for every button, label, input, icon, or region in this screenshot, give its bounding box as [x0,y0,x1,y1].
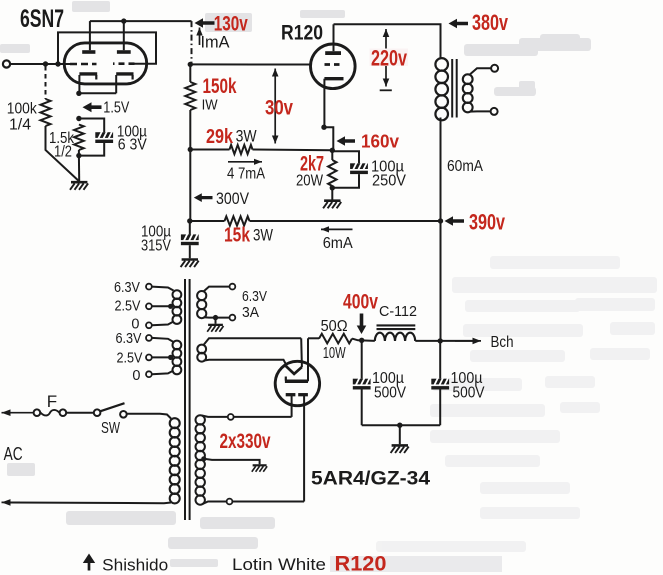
svg-text:300V: 300V [216,189,250,208]
svg-text:R120: R120 [281,22,323,45]
PT heater winding lower [173,341,182,350]
ground (6.3V tap) [207,325,223,332]
svg-text:150k: 150k [203,75,237,98]
node cathode bend [321,125,326,130]
svg-text:220v: 220v [371,46,408,71]
wire switch to PT [127,414,171,419]
svg-text:C-112: C-112 [379,304,417,320]
wire grid frame [58,32,156,64]
wire cathode to 50R [308,337,319,339]
capacitor 100u 250V [332,151,368,188]
tube U1 6SN7 envelope [64,43,147,84]
OPT secondary terminal top [491,65,498,72]
wire plate a to HV top [234,416,292,418]
node 2k7 top [330,148,335,153]
5AR4 plate a [286,395,296,417]
arrow 4.7mA [228,161,262,163]
svg-text:400v: 400v [343,290,378,314]
label 220v [370,49,409,67]
tube V3 5AR4 envelope [275,361,319,405]
PT primary winding [170,418,180,428]
svg-text:250V: 250V [372,173,407,190]
6SN7 grid b (dashes) [113,62,135,65]
arrow 130v [195,18,215,28]
faint reverse-side text [376,256,657,552]
svg-text:10W: 10W [323,345,347,362]
wire cap bottoms [362,424,441,426]
wire to ground [399,425,401,444]
node Bch junction [438,338,443,343]
OPT secondary terminal bottom [491,108,498,115]
PT core [185,279,190,520]
svg-text:3W: 3W [236,128,257,146]
HV terminal top [228,414,234,420]
label 100u 500V #1 [372,370,407,402]
svg-text:0: 0 [132,368,140,384]
capacitor 100u 500V #1 [353,340,371,425]
ground (HV center tap) [252,465,267,471]
winding 5V rectifier heater [197,338,301,364]
5AR4 plate b [298,395,308,502]
node plate bus [121,18,126,23]
wire input to grid [10,63,70,65]
svg-text:6SN7: 6SN7 [20,5,64,33]
node 390v [438,218,443,223]
svg-text:ImA: ImA [201,34,230,52]
arrow 380v [449,19,469,29]
wire 150k node down [189,150,191,222]
node 2k7 bottom [330,185,335,190]
AC line bottom [2,499,172,506]
measure arrow 220v [380,29,392,90]
fuse F [34,409,67,416]
capacitor 100u 6.3V [79,119,113,156]
wire cathodes join [79,92,116,94]
6SN7 cathode a [79,74,97,93]
wire plate b to HV bottom [232,501,304,503]
node plate row [188,62,193,67]
node filter ground [397,423,402,428]
R120 grid (dashes) [325,63,342,66]
wire fuse to switch [66,412,94,414]
wire rail down to choke node [440,221,442,341]
5AR4 filament V [286,366,302,374]
svg-text:IW: IW [202,97,219,114]
HV center tap [201,456,259,464]
resistor 29k 3W [190,145,332,154]
svg-text:AC: AC [4,444,23,464]
OPT secondary [463,68,491,112]
winding 6.3V 3A [197,287,230,319]
R120 plate [325,24,341,55]
wire plate bus drop (dash-dot) [191,21,193,64]
arrow 390v [445,216,465,226]
wire heater drop [300,338,303,367]
arrow 160v [337,136,356,146]
terminal 6.3V bottom [230,315,236,321]
svg-text:6.3V: 6.3V [116,331,142,347]
svg-text:1/4: 1/4 [9,117,31,134]
svg-text:6mA: 6mA [323,235,353,252]
switch SW [94,403,127,417]
6SN7 cathode b [116,74,133,93]
ground (315V cap) [181,260,199,268]
node 15k row left [187,218,192,223]
resistor 50R 10W [319,334,352,344]
label 100u 250V [371,159,407,190]
label 100u 6.3V [117,124,147,154]
terminal 6.3V top [230,284,236,290]
capacitor 100u 500V #2 [431,341,449,425]
node 6.3V gnd tap [213,315,218,320]
heater terminals [146,284,152,377]
resistor 100k [41,66,79,181]
svg-text:60mA: 60mA [447,158,483,175]
ground (filter) [391,445,409,453]
heater terminal labels [114,280,143,384]
choke C-112 [375,325,416,341]
R120 cathode [324,79,343,128]
svg-text:380v: 380v [472,10,509,35]
input terminal [3,60,10,67]
wire to ground [331,188,333,200]
svg-text:3W: 3W [253,227,273,245]
svg-text:29k: 29k [206,125,233,148]
arrow 300V [194,193,213,202]
node grid-frame junction [55,61,60,66]
AC line top: arrow [2,412,35,414]
5AR4 cathode [285,338,308,381]
svg-text:2x330v: 2x330v [220,430,271,453]
label 100u 315V [141,224,171,255]
svg-text:100k: 100k [7,101,38,118]
label 100u 500V #2 [451,370,486,402]
wire plate bus [90,20,192,22]
capacitor 100u 315V [181,221,199,258]
transformer OPT primary [435,58,448,71]
wire tap to ground [215,318,217,324]
svg-text:160v: 160v [361,131,400,152]
node cathode R top [76,116,81,121]
svg-text:R120: R120 [335,553,387,575]
svg-text:20W: 20W [296,173,323,190]
svg-text:Lotin White: Lotin White [232,555,326,574]
svg-text:315V: 315V [141,238,171,255]
svg-text:1.5V: 1.5V [103,100,129,117]
node choke in [359,338,364,343]
measure arrow 30v [272,69,279,144]
svg-text:6.3V: 6.3V [242,289,267,305]
resistor 15k 3W row [190,216,441,225]
svg-text:5AR4/GZ-34: 5AR4/GZ-34 [311,468,430,490]
resistor 1.5k [74,125,84,156]
OPT core [452,59,457,118]
svg-text:500V: 500V [453,385,486,402]
svg-text:390v: 390v [469,209,506,234]
svg-text:4 7mA: 4 7mA [227,166,265,183]
arrow 400v (down) [357,314,367,335]
label 6.3V 3A [242,289,267,321]
resistor 150k 1W [185,64,195,149]
arrow 1mA [199,28,201,46]
PT heater winding upper [173,290,182,299]
wire R120 plate to OPT [334,24,441,58]
svg-text:Bch: Bch [491,334,514,351]
wire to ground [78,156,80,181]
wire cathode to 2k7 [324,127,333,150]
ground (6SN7 cathode) [70,182,88,190]
label 1.5k 1/2 [49,130,75,161]
svg-text:Shishido: Shishido [102,556,168,575]
svg-text:500V: 500V [374,385,407,402]
HV terminal bottom [227,499,233,505]
svg-text:15k: 15k [224,225,251,247]
svg-text:50Ω: 50Ω [321,318,348,335]
svg-text:2.5V: 2.5V [115,299,141,315]
svg-text:130v: 130v [214,13,248,36]
wire 50R to choke [352,339,375,341]
node 29k left [188,147,193,152]
svg-text:3A: 3A [242,305,259,321]
wire OPT to 390v node [440,118,442,222]
winding HV 2x330v [196,415,228,505]
6SN7 plate b [117,21,131,54]
svg-text:SW: SW [101,420,120,437]
arrow Bch [455,340,481,342]
resistor 2k7 20W [328,150,336,188]
caption Shishido [88,560,91,571]
svg-text:6.3V: 6.3V [114,280,140,296]
node 1.5k bottom [76,153,81,158]
tube V2 R120 envelope [311,44,356,89]
arrow 6mA [321,228,353,230]
ground (2k7) [323,201,341,209]
node cathode junction [76,91,81,96]
svg-text:F: F [47,392,57,411]
cathode circuit: 1.5V arrow [83,102,102,112]
caption R120 red [330,556,502,572]
svg-text:1/2: 1/2 [54,144,72,161]
heater terminal wires [152,287,174,375]
6SN7 plate a [82,21,95,54]
6SN7 grid a (dashes) [70,63,97,66]
node input junction [43,61,48,66]
wire node to R120 grid [190,63,310,65]
svg-text:30v: 30v [265,97,293,120]
svg-text:6 3V: 6 3V [118,137,147,154]
label 100k 1/4 [7,101,38,134]
wire choke out [415,340,472,342]
svg-text:2.5V: 2.5V [117,351,143,367]
